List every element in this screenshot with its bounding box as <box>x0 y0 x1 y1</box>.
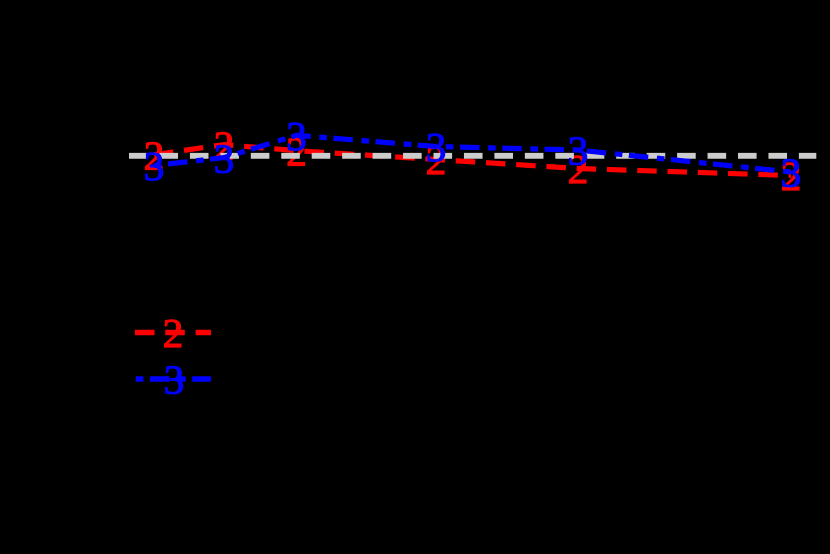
svg-text:3: 3 <box>214 135 235 181</box>
svg-text:3: 3 <box>286 113 307 159</box>
svg-text:2: 2 <box>163 310 184 356</box>
svg-text:3: 3 <box>144 143 165 189</box>
svg-text:3: 3 <box>164 357 185 403</box>
svg-text:3: 3 <box>781 150 802 196</box>
svg-text:3: 3 <box>426 124 447 170</box>
svg-text:3: 3 <box>568 128 589 174</box>
